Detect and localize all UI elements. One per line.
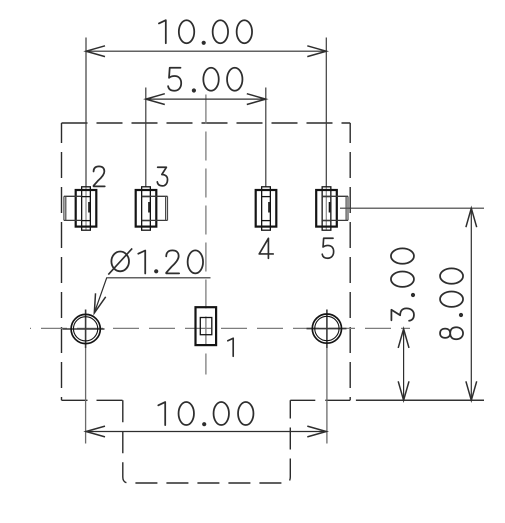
arrow 5.00 left	[146, 94, 165, 105]
body outline bottom-right edge	[290, 399, 350, 401]
arrow 10.00 top left	[86, 46, 105, 57]
pad number 4	[259, 238, 273, 258]
body outline top edge	[62, 122, 351, 124]
dimension line 10.00 top	[86, 50, 326, 52]
body outline left edge	[61, 123, 63, 400]
pad number 1	[228, 338, 233, 356]
hole left	[71, 314, 100, 343]
vertical centerline	[205, 95, 207, 375]
arrow 3.00 up	[398, 329, 409, 348]
arrow 8.00 up	[466, 208, 477, 227]
horizontal centerline	[30, 327, 410, 329]
arrow 10.00 top right	[307, 46, 326, 57]
dimension text 8.00	[440, 268, 463, 283]
left hole crosshair horizontal	[63, 328, 105, 330]
left hole crosshair vertical	[85, 310, 87, 349]
body outline bottom-left edge	[62, 399, 123, 401]
leader line diameter 1.20	[94, 278, 210, 313]
extension line pad2 through pad	[85, 187, 87, 230]
dimension text 10.00 top	[159, 20, 166, 43]
arrow 5.00 right	[247, 94, 266, 105]
arrow 10.00 bottom right	[307, 426, 326, 437]
pad number 3	[157, 167, 167, 186]
leader arrow	[94, 293, 105, 313]
dimension text diameter 1.20	[108, 248, 132, 274]
pad 2	[76, 190, 97, 227]
arrow 8.00 down	[466, 381, 477, 400]
dimension line 8.00	[470, 208, 472, 400]
dimension line 5.00	[146, 98, 266, 100]
extension line 8.00 top	[340, 207, 484, 209]
hole right	[312, 314, 341, 343]
extension line bottom right	[356, 399, 484, 401]
arrow 3.00 down	[398, 381, 409, 400]
left hole extension line down	[85, 348, 87, 444]
right hole crosshair vertical	[326, 310, 328, 349]
body bottom boss outline	[123, 400, 290, 483]
extension line pad3	[145, 88, 147, 188]
extension line pad5	[325, 38, 327, 188]
dimension line 10.00 bottom	[86, 431, 326, 433]
dimension text 3.00	[391, 248, 414, 263]
pad number 2	[94, 166, 105, 186]
pad number 5	[322, 238, 333, 258]
arrow 10.00 bottom left	[86, 426, 105, 437]
right hole extension line down	[326, 348, 328, 444]
dimension text 10.00 bottom	[158, 402, 165, 425]
pad 4	[256, 190, 277, 227]
extension line pad2	[85, 38, 87, 188]
extension line pad4	[265, 88, 267, 188]
dimension text 5.00	[168, 68, 181, 91]
extension line pad5 through pad	[325, 187, 327, 230]
body outline right edge	[349, 123, 351, 400]
dimension line 3.00	[403, 329, 405, 400]
pad 1	[196, 307, 217, 345]
pad 5	[316, 190, 337, 227]
pad 3	[136, 190, 157, 227]
right hole crosshair horizontal	[307, 328, 347, 330]
